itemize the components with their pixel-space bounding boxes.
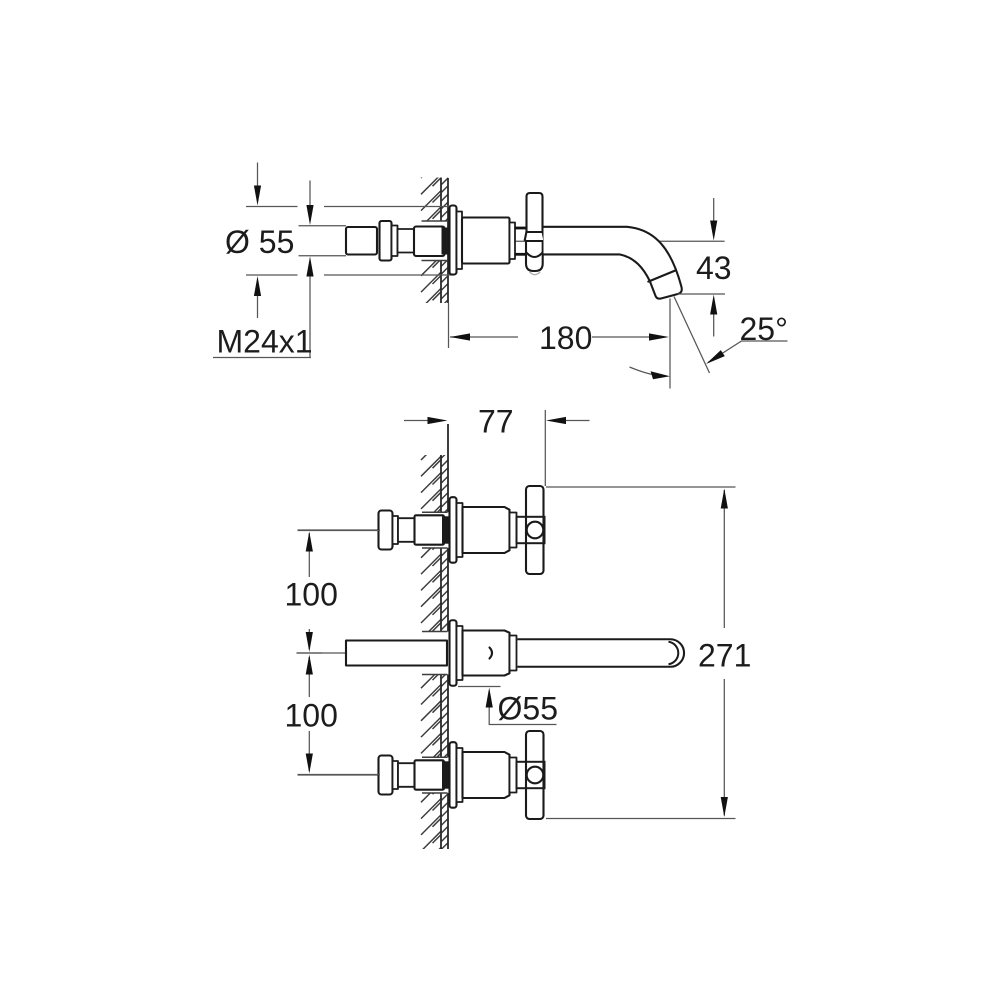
svg-text:43: 43: [696, 250, 732, 286]
svg-text:100: 100: [285, 577, 338, 613]
svg-text:Ø55: Ø55: [498, 691, 558, 727]
svg-text:180: 180: [539, 320, 592, 356]
svg-text:271: 271: [698, 638, 751, 674]
svg-text:100: 100: [285, 698, 338, 734]
svg-text:M24x1: M24x1: [217, 324, 313, 360]
svg-text:25°: 25°: [740, 311, 788, 347]
svg-text:77: 77: [478, 404, 514, 440]
svg-text:Ø 55: Ø 55: [225, 224, 294, 260]
